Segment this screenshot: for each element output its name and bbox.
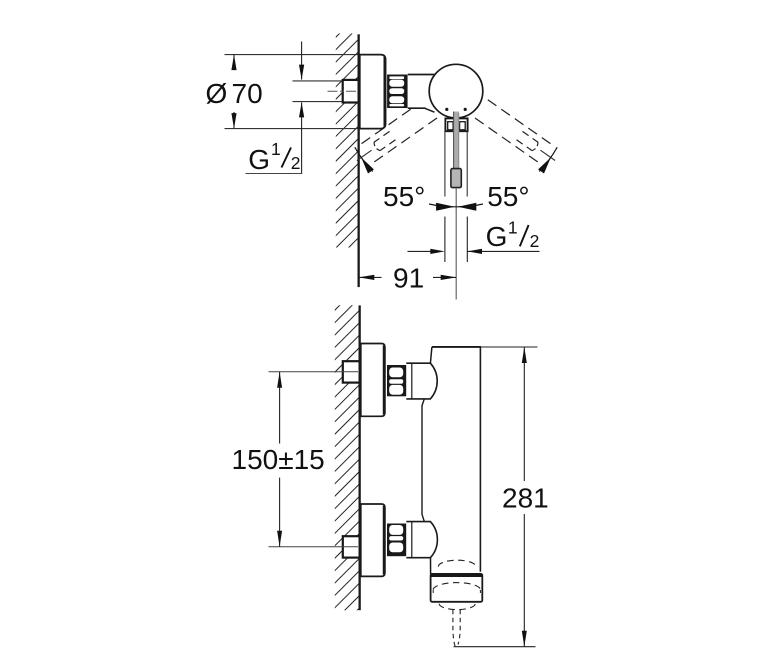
svg-text:G: G [248,144,270,175]
svg-text:55°: 55° [383,181,425,212]
svg-text:1: 1 [271,139,281,159]
svg-text:Ø: Ø [206,78,228,109]
svg-text:91: 91 [393,263,424,294]
svg-text:70: 70 [232,78,263,109]
svg-text:2: 2 [530,231,540,251]
svg-text:G: G [486,221,508,252]
svg-text:55°: 55° [487,181,529,212]
svg-text:150±15: 150±15 [232,444,325,475]
svg-text:2: 2 [291,153,301,173]
svg-text:281: 281 [502,482,549,513]
svg-text:1: 1 [508,218,518,238]
